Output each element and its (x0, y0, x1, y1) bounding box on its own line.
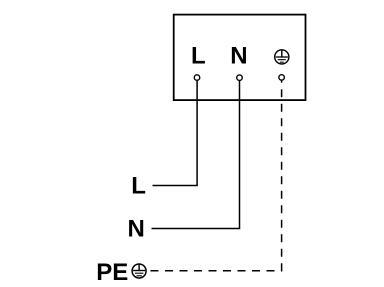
svg-text:L: L (191, 43, 206, 70)
wire PE (dashed) (151, 81, 282, 271)
wire N (152, 81, 240, 229)
svg-text:N: N (230, 43, 247, 70)
svg-text:PE: PE (96, 259, 128, 286)
wire L (153, 81, 198, 186)
terminal L (194, 75, 200, 81)
terminal PE (279, 75, 285, 81)
svg-text:N: N (128, 215, 145, 242)
protective earth symbol (terminal box) (275, 50, 289, 64)
svg-text:L: L (131, 173, 146, 200)
terminal N (237, 75, 243, 81)
earth symbol (PE node) (132, 264, 146, 278)
terminal box (174, 15, 306, 101)
